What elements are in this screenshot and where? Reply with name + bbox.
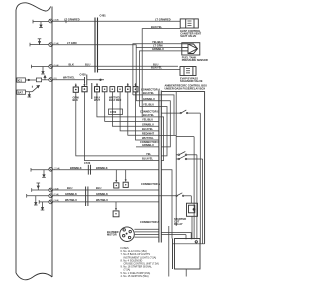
wire drop P2 <box>84 92 158 161</box>
connector C420 <box>80 73 87 86</box>
ground G2 <box>38 39 42 45</box>
fuse legend <box>121 247 160 278</box>
wire W4 BLU from F3 <box>53 65 178 67</box>
wire drop P3 <box>97 92 159 117</box>
wire S1 YEL/BLU <box>133 44 182 95</box>
wire drop P1 <box>76 92 159 156</box>
connector C723 <box>84 161 91 175</box>
fuse F1 <box>49 18 59 23</box>
label WHT/YEL <box>63 75 75 79</box>
ground G6 <box>37 183 41 190</box>
svg-text:GRN/BLU: GRN/BLU <box>152 47 164 51</box>
ground G3 <box>41 67 45 75</box>
svg-text:WHT/BLU: WHT/BLU <box>65 198 77 202</box>
wire drop P6 <box>120 92 159 131</box>
label W5 <box>151 66 163 70</box>
label U3 <box>180 77 203 84</box>
inner vertical V2 <box>159 107 167 156</box>
inner vertical V5 <box>175 92 177 226</box>
wire H2 extension <box>161 233 191 240</box>
wire F6 row <box>53 189 159 191</box>
svg-text:CONNECTOR A: CONNECTOR A <box>140 220 159 224</box>
svg-text:WHT/YEL: WHT/YEL <box>142 136 154 140</box>
svg-text:(40A): (40A) <box>54 18 60 21</box>
label connector A3 <box>140 220 159 224</box>
svg-text:LT GRN/RED: LT GRN/RED <box>64 18 80 22</box>
wire A1-F4 <box>42 79 49 81</box>
fuse F8 <box>49 199 59 204</box>
svg-text:BLU/YEL: BLU/YEL <box>142 127 154 131</box>
vertical V6 <box>168 226 170 277</box>
wire H3 <box>135 234 159 236</box>
label F5 row <box>70 166 108 170</box>
wire W1 LT GRN/RED <box>53 20 180 24</box>
label connector B <box>140 109 159 113</box>
svg-text:LT GRN/RED: LT GRN/RED <box>155 18 171 22</box>
wire F2 stub <box>30 43 49 47</box>
wire W3 LT GRN from F2 <box>53 45 136 48</box>
svg-text:BRN/BLK: BRN/BLK <box>96 166 108 170</box>
svg-text:PRESSURE SENSOR: PRESSURE SENSOR <box>182 58 208 62</box>
svg-text:YEL/BLU: YEL/BLU <box>152 40 163 44</box>
svg-text:CONNECTOR A: CONNECTOR A <box>141 88 160 92</box>
svg-text:GRN/BLK: GRN/BLK <box>96 192 108 196</box>
big box outline <box>162 92 205 244</box>
inner box M1 <box>173 239 201 270</box>
wire H1 <box>134 228 158 230</box>
svg-text:GRN/BLU: GRN/BLU <box>142 123 154 127</box>
wire drop P8 <box>136 92 159 140</box>
wire drop P4 <box>105 92 159 122</box>
label W2 <box>151 25 163 29</box>
wire row2 <box>26 91 33 93</box>
label AMBIENT box title <box>165 84 208 91</box>
box BAT2 <box>17 90 26 94</box>
label row A3 <box>143 103 154 107</box>
fuse F6 <box>49 187 59 192</box>
label W1 <box>64 18 171 22</box>
svg-text:BRN/BLK: BRN/BLK <box>70 166 82 170</box>
svg-text:GRN/BLU: GRN/BLU <box>143 97 155 101</box>
svg-text:GRN/BLU: GRN/BLU <box>142 143 154 147</box>
wire H4 <box>134 236 158 238</box>
box D2 <box>113 202 119 217</box>
label S1 <box>152 40 163 44</box>
wire F8 stub <box>39 200 48 204</box>
svg-text:BAT: BAT <box>18 90 24 94</box>
box A1 <box>36 78 41 82</box>
box BAT1 <box>17 78 26 82</box>
svg-text:4. No. 15 IGNITION (50A): 4. No. 15 IGNITION (50A) <box>121 275 149 278</box>
fuse F3 <box>49 64 59 69</box>
svg-text:CONNECTOR A: CONNECTOR A <box>141 182 160 186</box>
label S3 <box>152 47 164 51</box>
label row A1 <box>143 91 155 95</box>
svg-text:BLK/YEL: BLK/YEL <box>151 66 163 70</box>
svg-text:BLU: BLU <box>96 186 101 190</box>
wire row A2 <box>136 100 159 102</box>
pin P1 <box>73 84 78 93</box>
label S2 <box>153 44 163 48</box>
pin P6 <box>118 87 123 92</box>
valve box U3 evap bypass solenoid <box>180 67 196 76</box>
wire F5 stub <box>31 168 49 172</box>
ground G5 <box>42 170 46 178</box>
connector bars column <box>159 91 161 243</box>
label U1 <box>180 29 201 38</box>
pin P4 <box>102 87 107 92</box>
label F8 row <box>65 198 108 202</box>
svg-text:C550: C550 <box>110 110 117 114</box>
svg-text:BLK: BLK <box>69 63 74 67</box>
svg-text:BLK: BLK <box>73 98 78 102</box>
switch SW3 <box>177 156 203 244</box>
label connector A <box>141 88 160 92</box>
wire sw link <box>176 137 194 240</box>
wire F6 stub <box>32 188 49 192</box>
svg-text:SOLENOID VALVE: SOLENOID VALVE <box>180 79 203 83</box>
svg-text:BLU/YEL: BLU/YEL <box>142 157 154 161</box>
box D2 <box>123 170 128 188</box>
svg-text:SHUT VALVE: SHUT VALVE <box>180 34 196 38</box>
valve box U1 shut valve <box>180 19 198 28</box>
relay box K1 <box>187 203 198 239</box>
label connector A2 <box>141 182 160 186</box>
svg-text:YEL/BLU: YEL/BLU <box>142 118 153 122</box>
svg-text:UNDER-DASH FUSE/RELAY BOX: UNDER-DASH FUSE/RELAY BOX <box>165 86 206 90</box>
wire drop P7 <box>128 92 159 135</box>
label W4 <box>69 63 159 67</box>
pin P8 <box>133 83 138 92</box>
wire row to M1 <box>161 170 172 239</box>
inner vertical V1 <box>159 117 164 161</box>
wire F5 row <box>53 169 159 171</box>
wire H3 extension <box>161 235 186 240</box>
ground G8 <box>41 202 45 210</box>
wire row RED/WHT extension <box>159 134 176 136</box>
row labels staircase <box>140 113 159 161</box>
wire F3 stub <box>32 65 49 69</box>
inner vertical V4 <box>159 95 174 135</box>
svg-text:C481: C481 <box>100 14 107 18</box>
pin P2 <box>82 83 87 92</box>
label row A2 <box>143 97 155 101</box>
svg-text:LT GRN: LT GRN <box>153 44 163 48</box>
svg-text:BLU: BLU <box>85 63 90 67</box>
wire S3 GRN/BLU <box>140 51 182 107</box>
svg-text:BLU/YEL: BLU/YEL <box>143 91 155 95</box>
wire row A3 <box>140 106 159 108</box>
labels P3-P8 <box>94 96 121 103</box>
svg-text:C723: C723 <box>84 161 91 165</box>
heater connector circle <box>120 227 135 242</box>
svg-text:RED/WHT: RED/WHT <box>142 132 155 136</box>
svg-text:YEL: YEL <box>146 152 151 156</box>
wire F8 row <box>53 201 159 203</box>
svg-text:WHT/YEL: WHT/YEL <box>63 75 75 79</box>
pin P5 <box>110 87 115 92</box>
ground G7 <box>34 196 38 205</box>
svg-text:GRN/BLK: GRN/BLK <box>65 192 77 196</box>
svg-text:C420: C420 <box>80 73 87 77</box>
label U2 <box>182 56 208 63</box>
ground G1 <box>39 22 43 28</box>
torn-edge harness outline <box>16 3 52 280</box>
transistor Q1 <box>32 85 39 91</box>
svg-text:BLU/YEL: BLU/YEL <box>143 113 155 117</box>
pin P7 <box>125 83 130 92</box>
svg-text:BLU: BLU <box>67 186 72 190</box>
wire row C1 <box>136 146 159 148</box>
wire H2 <box>135 231 159 233</box>
wire W5 BLK/YEL to evap bypass <box>98 69 180 71</box>
wire row A1 <box>133 94 159 96</box>
junction label box C550b <box>109 109 123 115</box>
svg-text:CONNECTOR B: CONNECTOR B <box>140 109 159 113</box>
inner vertical V3 <box>159 101 170 147</box>
fuse F7 <box>49 193 59 198</box>
wire S2 LT GRN <box>136 48 182 101</box>
fuse F2 <box>49 42 59 47</box>
wire drop P5 <box>112 92 158 126</box>
svg-text:IG1: IG1 <box>18 78 23 82</box>
connector C453 <box>86 187 88 207</box>
svg-text:LT GRN: LT GRN <box>67 41 77 45</box>
wire F7 stub <box>27 194 49 198</box>
wire row F4 <box>26 76 47 81</box>
label F6 row <box>67 186 101 190</box>
wire M1 bottom pin <box>185 269 187 277</box>
wire F7 row <box>53 193 191 203</box>
fuse F4 <box>49 78 57 82</box>
wire W2 BLK/YEL <box>142 29 180 117</box>
svg-text:RELAY: RELAY <box>174 222 183 226</box>
label F7 row <box>65 192 108 196</box>
connector bar C550 <box>91 83 93 99</box>
label K1 <box>174 217 186 226</box>
svg-text:YEL/BLU: YEL/BLU <box>143 103 154 107</box>
switch SW2 <box>177 152 197 240</box>
label P1 P2 <box>73 96 80 103</box>
sensor box U2 fuel tank pressure sensor <box>182 43 200 55</box>
label W3 <box>67 41 77 45</box>
wire F1 stub <box>33 20 49 24</box>
ground G4 <box>28 92 32 97</box>
svg-text:MOTOR: MOTOR <box>107 233 117 237</box>
label heater <box>107 230 119 237</box>
wire WHT/YEL <box>53 79 104 81</box>
connector C481 bar <box>95 14 106 73</box>
pin P3 <box>95 83 100 92</box>
fuse F5 <box>49 167 60 171</box>
svg-text:BLU/ RED: BLU/ RED <box>109 98 121 102</box>
svg-text:BLK/YEL: BLK/YEL <box>151 25 163 29</box>
switch SW1 <box>161 110 200 244</box>
box D1 <box>114 170 119 188</box>
svg-text:WHT/BLU: WHT/BLU <box>96 198 108 202</box>
